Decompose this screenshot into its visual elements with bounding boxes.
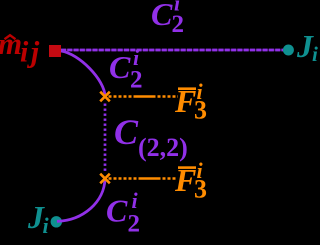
svg-text:C: C	[109, 49, 131, 85]
svg-text:C: C	[151, 0, 173, 32]
svg-text:i: i	[132, 188, 139, 213]
svg-text:F: F	[174, 162, 196, 198]
svg-text:C: C	[106, 193, 128, 229]
svg-text:2: 2	[172, 11, 185, 38]
svg-text:i: i	[312, 42, 318, 66]
svg-text:2: 2	[130, 67, 143, 94]
svg-text:3: 3	[194, 175, 207, 204]
svg-text:F: F	[174, 83, 196, 119]
svg-text:C: C	[114, 112, 139, 152]
svg-text:(2,2): (2,2)	[138, 133, 188, 162]
svg-text:i: i	[43, 213, 50, 238]
svg-text:3: 3	[194, 96, 207, 125]
svg-text:m: m	[0, 26, 22, 61]
svg-text:ij: ij	[20, 36, 42, 69]
svg-text:2: 2	[128, 211, 141, 238]
